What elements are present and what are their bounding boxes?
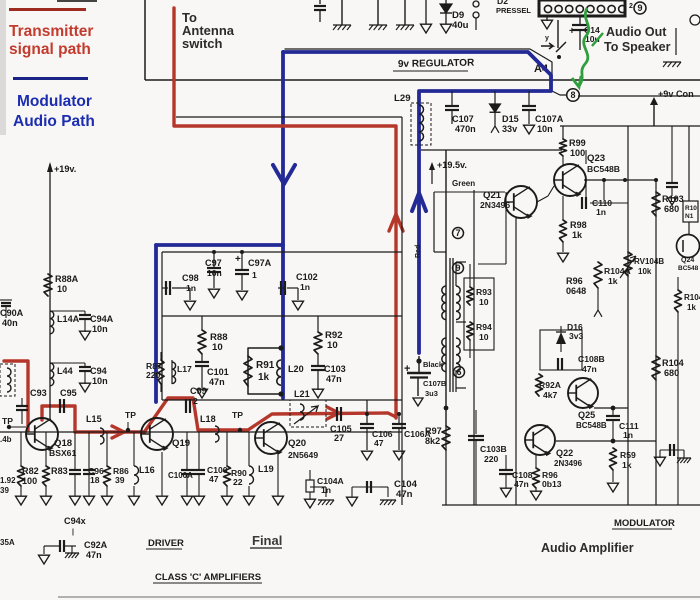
- svg-text:8k2: 8k2: [425, 436, 440, 446]
- svg-text:Q24: Q24: [681, 257, 694, 264]
- svg-text:C100A: C100A: [168, 471, 193, 480]
- svg-text:Final: Final: [252, 533, 282, 548]
- svg-text:MODULATOR: MODULATOR: [614, 518, 675, 529]
- svg-text:47: 47: [374, 438, 384, 448]
- svg-text:N1: N1: [685, 213, 694, 220]
- svg-text:1k: 1k: [258, 372, 270, 383]
- svg-text:+19.5v.: +19.5v.: [437, 160, 467, 170]
- svg-text:CLASS 'C' AMPLIFIERS: CLASS 'C' AMPLIFIERS: [155, 572, 261, 583]
- svg-text:C90A: C90A: [0, 308, 24, 318]
- svg-text:680: 680: [664, 368, 679, 378]
- svg-text:47n: 47n: [326, 374, 342, 384]
- svg-text:C98: C98: [182, 273, 199, 283]
- svg-text:R91: R91: [256, 360, 275, 371]
- svg-text:C107A: C107A: [535, 114, 564, 124]
- svg-text:R10: R10: [685, 205, 697, 212]
- svg-text:R88A: R88A: [55, 274, 79, 284]
- svg-text:10: 10: [479, 297, 489, 307]
- svg-text:C99: C99: [190, 386, 207, 396]
- svg-text:L17: L17: [177, 364, 192, 374]
- svg-text:Green: Green: [452, 179, 475, 188]
- svg-text:.4b: .4b: [0, 435, 12, 444]
- svg-text:10k: 10k: [638, 267, 652, 276]
- svg-text:BSX61: BSX61: [49, 448, 76, 458]
- svg-text:|: |: [72, 529, 74, 536]
- svg-text:0648: 0648: [566, 286, 586, 296]
- svg-text:1k: 1k: [622, 460, 632, 470]
- svg-text:RV104B: RV104B: [634, 257, 664, 266]
- svg-text:10n: 10n: [207, 268, 222, 278]
- svg-text:DRIVER: DRIVER: [148, 538, 184, 549]
- svg-text:C92A: C92A: [84, 540, 108, 550]
- svg-text:2: 2: [193, 396, 198, 406]
- svg-text:To Speaker: To Speaker: [604, 40, 671, 54]
- svg-text:C95: C95: [60, 388, 77, 398]
- svg-text:10n: 10n: [537, 124, 553, 134]
- svg-text:10: 10: [327, 340, 338, 351]
- svg-text:10n: 10n: [92, 376, 108, 386]
- svg-text:R83: R83: [51, 466, 68, 476]
- svg-text:R97: R97: [425, 426, 442, 436]
- svg-text:Audio Path: Audio Path: [13, 113, 95, 130]
- svg-text:L18: L18: [200, 414, 216, 424]
- svg-text:40u: 40u: [452, 20, 469, 31]
- svg-text:TP: TP: [232, 410, 243, 420]
- svg-text:R99: R99: [569, 138, 586, 148]
- svg-text:C94: C94: [90, 366, 108, 376]
- svg-text:18: 18: [90, 475, 100, 485]
- svg-text:L15: L15: [86, 414, 102, 424]
- svg-text:1k: 1k: [687, 303, 696, 312]
- svg-text:BC548B: BC548B: [587, 164, 620, 174]
- svg-text:+: +: [569, 26, 575, 37]
- svg-text:+9v Con: +9v Con: [658, 89, 694, 99]
- svg-text:47n: 47n: [396, 489, 413, 500]
- svg-text:C108B: C108B: [578, 354, 605, 364]
- svg-text:signal path: signal path: [9, 41, 91, 58]
- svg-text:Q23: Q23: [587, 153, 605, 164]
- svg-text:10: 10: [212, 342, 223, 353]
- svg-text:9: 9: [637, 3, 642, 13]
- svg-text:L21: L21: [294, 389, 310, 399]
- svg-text:1n: 1n: [300, 282, 310, 292]
- svg-text:47: 47: [209, 474, 219, 484]
- svg-text:4k7: 4k7: [543, 390, 558, 400]
- svg-text:33v: 33v: [502, 124, 518, 134]
- svg-text:C107: C107: [452, 114, 474, 124]
- svg-text:47n: 47n: [86, 550, 102, 560]
- svg-text:BC548B: BC548B: [576, 421, 607, 430]
- svg-text:switch: switch: [182, 36, 223, 51]
- svg-text:Q22: Q22: [556, 448, 573, 458]
- svg-text:C103: C103: [324, 364, 346, 374]
- svg-text:R94: R94: [476, 322, 492, 332]
- svg-text:C93: C93: [30, 388, 47, 398]
- svg-text:Red: Red: [415, 245, 422, 258]
- svg-text:+19v.: +19v.: [54, 164, 76, 174]
- svg-text:C97A: C97A: [248, 258, 272, 268]
- svg-text:L29: L29: [394, 93, 411, 104]
- svg-text:1n: 1n: [596, 207, 606, 217]
- svg-text:L16: L16: [139, 465, 155, 475]
- svg-text:Audio Out: Audio Out: [606, 25, 667, 39]
- svg-text:C97: C97: [205, 258, 222, 268]
- svg-text:L19: L19: [258, 464, 274, 474]
- svg-text:9: 9: [455, 263, 460, 273]
- svg-text:1n: 1n: [186, 283, 196, 293]
- svg-text:D2: D2: [497, 0, 508, 6]
- svg-text:220: 220: [146, 370, 161, 380]
- svg-text:22: 22: [233, 477, 243, 487]
- svg-text:10n: 10n: [92, 324, 108, 334]
- svg-text:100: 100: [22, 476, 37, 486]
- svg-text:Q20: Q20: [288, 438, 306, 449]
- svg-text:35A: 35A: [0, 538, 15, 547]
- svg-text:Modulator: Modulator: [17, 93, 92, 110]
- svg-text:Audio Amplifier: Audio Amplifier: [541, 541, 634, 555]
- svg-text:C102: C102: [296, 272, 318, 282]
- svg-text:2N3496: 2N3496: [554, 459, 583, 468]
- svg-text:8: 8: [570, 90, 575, 100]
- svg-text:1n: 1n: [623, 430, 633, 440]
- svg-text:0b13: 0b13: [542, 479, 562, 489]
- svg-text:PRESSEL: PRESSEL: [496, 6, 531, 15]
- svg-text:R96: R96: [566, 276, 583, 286]
- svg-text:2: 2: [629, 3, 633, 10]
- svg-text:Q25: Q25: [578, 410, 595, 420]
- svg-text:+: +: [235, 254, 241, 265]
- svg-text:C94x: C94x: [64, 516, 86, 526]
- svg-text:27: 27: [334, 433, 344, 443]
- svg-text:9v REGULATOR: 9v REGULATOR: [398, 58, 475, 70]
- svg-text:R98: R98: [570, 220, 587, 230]
- svg-text:C101: C101: [207, 367, 229, 377]
- svg-text:47n: 47n: [514, 479, 529, 489]
- svg-text:220: 220: [484, 454, 499, 464]
- svg-text:7: 7: [455, 228, 460, 238]
- svg-text:L14A: L14A: [57, 314, 80, 324]
- svg-text:L20: L20: [288, 364, 304, 374]
- svg-text:10: 10: [57, 284, 67, 294]
- svg-text:C103B: C103B: [480, 444, 507, 454]
- svg-text:1n: 1n: [321, 485, 331, 495]
- svg-text:47n: 47n: [582, 364, 597, 374]
- svg-text:1k: 1k: [608, 276, 618, 286]
- svg-text:Transmitter: Transmitter: [9, 23, 93, 40]
- svg-text:2N5649: 2N5649: [288, 450, 318, 460]
- svg-text:39: 39: [115, 475, 125, 485]
- svg-text:R104: R104: [684, 293, 700, 302]
- svg-text:R92A: R92A: [539, 380, 561, 390]
- svg-text:TP: TP: [125, 410, 136, 420]
- svg-text:100: 100: [570, 148, 585, 158]
- svg-text:1k: 1k: [572, 230, 583, 240]
- svg-text:R82: R82: [22, 466, 39, 476]
- svg-text:R104: R104: [662, 358, 685, 368]
- svg-text:1.92: 1.92: [0, 476, 16, 485]
- svg-text:L44: L44: [57, 366, 74, 376]
- svg-text:1: 1: [252, 270, 257, 280]
- svg-text:3u3: 3u3: [425, 389, 438, 398]
- svg-text:BC548: BC548: [678, 265, 699, 272]
- svg-text:Black: Black: [423, 360, 444, 369]
- svg-text:39: 39: [0, 486, 9, 495]
- svg-text:R59: R59: [620, 450, 636, 460]
- svg-text:TP: TP: [2, 416, 13, 426]
- svg-text:10: 10: [479, 332, 489, 342]
- svg-text:C94A: C94A: [90, 314, 114, 324]
- svg-text:40n: 40n: [2, 318, 18, 328]
- svg-text:6: 6: [456, 367, 461, 377]
- svg-text:47n: 47n: [209, 377, 225, 387]
- svg-text:D15: D15: [502, 114, 519, 124]
- svg-text:C107B: C107B: [423, 379, 447, 388]
- svg-text:3v3: 3v3: [569, 331, 584, 341]
- svg-text:y: y: [545, 35, 549, 42]
- svg-text:R93: R93: [476, 287, 492, 297]
- svg-text:470n: 470n: [455, 124, 476, 134]
